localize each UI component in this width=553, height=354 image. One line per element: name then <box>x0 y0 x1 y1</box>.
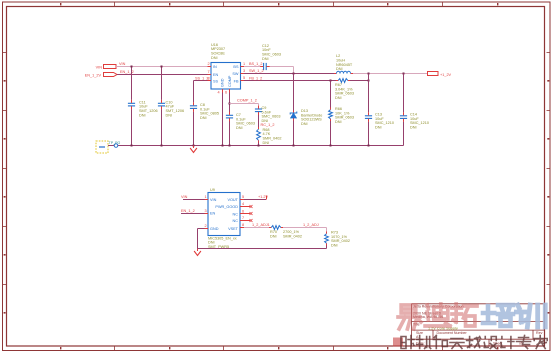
wire SW net <box>244 73 335 75</box>
svg-text:EN: EN <box>213 73 219 77</box>
svg-text:DNI: DNI <box>166 113 173 117</box>
no-connect NC2 <box>240 220 250 222</box>
node gnd rail <box>258 145 260 147</box>
svg-text:+1.2V: +1.2V <box>258 195 268 199</box>
wire RC node <box>258 115 260 127</box>
op-amp U16 regulator MP2307 <box>211 63 241 90</box>
svg-text:4: 4 <box>218 91 220 95</box>
watermark slogan char xian <box>467 337 481 348</box>
svg-text:2: 2 <box>205 224 207 228</box>
svg-text:VSET: VSET <box>228 227 239 231</box>
svg-text:U9: U9 <box>210 188 215 192</box>
svg-text:VIN: VIN <box>119 62 126 66</box>
node gnd rail <box>222 145 224 147</box>
svg-text:SS: SS <box>213 80 219 84</box>
svg-text:NC: NC <box>233 212 239 216</box>
svg-text:DNI: DNI <box>375 126 382 130</box>
svg-text:Rev: Rev <box>536 331 543 335</box>
svg-text:FB_1_2: FB_1_2 <box>249 77 262 81</box>
svg-text:DNI: DNI <box>270 235 277 239</box>
watermark slogan char he <box>433 336 447 349</box>
svg-text:NC: NC <box>233 219 239 223</box>
test point TP pgnd <box>114 144 118 148</box>
ground arrow U9 <box>197 249 199 252</box>
wire output rail <box>353 73 427 75</box>
svg-text:6: 6 <box>242 210 244 214</box>
svg-text:8: 8 <box>242 223 244 227</box>
watermark slogan char jia <box>534 336 547 349</box>
watermark logo block <box>393 338 403 347</box>
capacitor C9 <box>255 108 262 110</box>
svg-text:4: 4 <box>242 202 244 206</box>
svg-text:2: 2 <box>208 62 210 66</box>
svg-text:SW: SW <box>232 72 239 76</box>
svg-text:3: 3 <box>243 69 245 73</box>
svg-text:Document Number: Document Number <box>437 331 468 335</box>
node VIN/C11 <box>131 66 133 68</box>
svg-text:RC_1_2: RC_1_2 <box>261 123 275 127</box>
svg-text:DNI: DNI <box>331 244 338 248</box>
title block <box>412 304 545 346</box>
diode D13 catch <box>293 111 295 114</box>
wire GND branch <box>198 228 205 230</box>
watermark slogan char she2 <box>484 337 496 349</box>
wire box to test point <box>108 145 114 147</box>
svg-text:SW_1_2: SW_1_2 <box>249 69 264 73</box>
no-connect NC1 <box>240 213 250 215</box>
svg-text:DNI: DNI <box>410 126 417 130</box>
capacitor C14 <box>400 115 407 117</box>
svg-text:DNI: DNI <box>211 56 218 60</box>
node FB/out divider <box>368 80 370 82</box>
svg-text:COMP: COMP <box>228 75 232 87</box>
resistor R68 <box>258 127 260 129</box>
svg-text:VIN: VIN <box>181 195 188 199</box>
port +1_2V output <box>428 72 439 76</box>
port EN_1_2V <box>104 73 118 77</box>
wire C13 branch <box>368 74 370 113</box>
node out/C13 <box>368 73 370 75</box>
capacitor C13 <box>365 115 372 117</box>
svg-text:7: 7 <box>242 216 244 220</box>
svg-text:EN_1_2: EN_1_2 <box>181 209 195 213</box>
inductor L2 <box>334 73 337 75</box>
node SW/D13 <box>293 73 295 75</box>
port VIN <box>104 65 117 69</box>
wire VIN rail <box>116 66 211 68</box>
svg-text:DNI: DNI <box>263 141 270 145</box>
watermark char pei <box>483 305 513 326</box>
wire EN stub <box>181 213 205 215</box>
svg-text:1: 1 <box>205 195 207 199</box>
node gnd rail <box>368 145 370 147</box>
wire 1_2_ADJ <box>283 227 327 229</box>
capacitor C11 <box>128 102 135 104</box>
watermark slogan char pin <box>417 336 431 349</box>
watermark char tuo <box>452 304 477 326</box>
ground PGND arrow <box>193 146 195 149</box>
wire VIN stub <box>183 199 205 201</box>
node out/C14 <box>403 73 405 75</box>
svg-text:SMR_0402: SMR_0402 <box>283 235 302 239</box>
svg-text:DNI: DNI <box>236 126 243 130</box>
wire VOUT <box>240 199 244 201</box>
svg-text:VIN: VIN <box>210 198 217 202</box>
op-amp U9 LDO <box>208 193 240 236</box>
svg-text:1_2_ADJ: 1_2_ADJ <box>303 223 319 227</box>
svg-text:VIN: VIN <box>96 65 103 69</box>
svg-text:DNI: DNI <box>262 57 269 61</box>
svg-text:DNI: DNI <box>335 96 342 100</box>
node FB/R66 <box>330 80 332 82</box>
capacitor C10 <box>158 102 165 104</box>
svg-text:1_2_ADJ1: 1_2_ADJ1 <box>252 223 270 227</box>
watermark slogan char ji <box>501 337 514 349</box>
svg-text:5: 5 <box>242 195 244 199</box>
svg-text:6: 6 <box>225 91 227 95</box>
node gnd rail <box>293 145 295 147</box>
watermark slogan char tian <box>450 339 464 349</box>
svg-text:BS: BS <box>233 65 239 69</box>
node gnd rail <box>229 145 231 147</box>
svg-text:GND: GND <box>221 78 225 87</box>
capacitor C12 bootstrap <box>263 63 265 70</box>
svg-text:+1_2V: +1_2V <box>440 73 452 77</box>
svg-text:GND: GND <box>210 227 219 231</box>
wire C11 branch <box>131 67 133 100</box>
resistor R67 feedback top <box>336 80 338 82</box>
capacitor C7 <box>226 114 233 116</box>
svg-text:DNI: DNI <box>336 67 343 71</box>
svg-text:VOUT: VOUT <box>227 198 238 202</box>
wire D13 branch <box>293 74 295 111</box>
svg-text:DNI: DNI <box>139 113 146 117</box>
svg-text:5: 5 <box>243 76 245 80</box>
svg-text:TP_PG: TP_PG <box>109 141 121 145</box>
node gnd rail <box>131 145 133 147</box>
svg-text:2700_1%: 2700_1% <box>283 230 300 234</box>
svg-text:COMP_1_2: COMP_1_2 <box>237 99 257 103</box>
watermark slogan char zhuan <box>517 336 531 349</box>
wire FB net <box>244 80 336 82</box>
no-connect PWR_GOOD <box>240 206 250 208</box>
node gnd rail <box>330 145 332 147</box>
svg-text:EN_1_2V: EN_1_2V <box>85 74 102 78</box>
wire gnd rail mid <box>198 248 327 250</box>
wire VSET net <box>240 227 244 229</box>
wire ground rail <box>118 145 404 147</box>
svg-text:BS_1_2: BS_1_2 <box>249 62 263 66</box>
wire GND pin drop <box>222 93 224 146</box>
node VIN/C10 <box>161 66 163 68</box>
wire COMP_1_2 <box>230 103 259 105</box>
svg-text:R70: R70 <box>270 230 277 234</box>
svg-text:1: 1 <box>243 62 245 66</box>
watermark char di <box>425 304 450 326</box>
svg-text:IN: IN <box>213 65 217 69</box>
svg-text:FB: FB <box>234 80 239 84</box>
wire C10 branch <box>161 67 163 100</box>
wire SS branch <box>194 80 212 82</box>
resistor R73 <box>326 228 328 232</box>
wire BS net <box>244 66 261 68</box>
resistor R66 feedback low <box>330 81 332 108</box>
svg-text:7: 7 <box>208 70 210 74</box>
svg-text:SS_1_2: SS_1_2 <box>195 77 209 81</box>
node gnd rail <box>193 145 195 147</box>
wire C9 branch <box>258 104 260 106</box>
wire C14 branch <box>403 74 405 113</box>
watermark slogan char she <box>401 336 414 349</box>
svg-text:8: 8 <box>208 77 210 81</box>
watermark char xun <box>516 305 545 327</box>
svg-text:DNI: DNI <box>301 122 308 126</box>
resistor R70 <box>269 227 271 229</box>
node COMP branch <box>229 103 231 105</box>
svg-text:EN: EN <box>210 212 216 216</box>
svg-text:DNI: DNI <box>335 120 342 124</box>
node gnd rail <box>161 145 163 147</box>
power +1.2V <box>266 196 268 200</box>
watermark char yi <box>398 305 421 329</box>
power symbol box (yellow) <box>96 141 108 153</box>
capacitor C8 <box>190 105 197 107</box>
wire COMP pin drop <box>229 93 231 114</box>
wire EN rail <box>117 74 211 76</box>
svg-text:DNI: DNI <box>200 116 207 120</box>
svg-text:3: 3 <box>205 209 207 213</box>
svg-text:PWR_GOOD: PWR_GOOD <box>215 205 238 209</box>
